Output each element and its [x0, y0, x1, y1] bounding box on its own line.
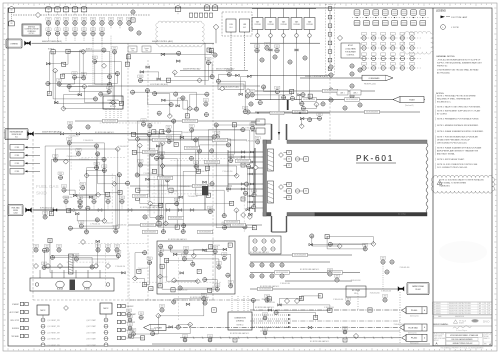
- svg-text:XX: XX: [47, 21, 49, 23]
- svg-text:000: 000: [184, 341, 187, 343]
- svg-text:NO NOTE LINE GAS NO.1: NO NOTE LINE GAS NO.1: [300, 268, 319, 271]
- svg-text:000: 000: [205, 115, 208, 117]
- svg-text:000: 000: [242, 130, 245, 132]
- svg-text:000: 000: [281, 266, 284, 268]
- svg-text:LEGEND: LEGEND: [436, 10, 446, 13]
- svg-text:000: 000: [276, 51, 279, 53]
- svg-text:Trim: Trim: [145, 50, 149, 52]
- svg-text:000: 000: [251, 277, 254, 279]
- svg-text:JB: JB: [329, 17, 331, 19]
- svg-text:2"-FG-604-150: 2"-FG-604-150: [90, 224, 100, 226]
- svg-text:XX: XX: [247, 165, 249, 167]
- svg-text:LSS: LSS: [243, 24, 247, 26]
- svg-text:00-XX-000-0000: 00-XX-000-0000: [186, 148, 198, 150]
- svg-text:XXX: XXX: [207, 58, 210, 60]
- svg-text:XX: XX: [87, 125, 89, 127]
- svg-text:00-XX-000-0000: 00-XX-000-0000: [259, 289, 271, 291]
- svg-text:00-XX-000-0000: 00-XX-000-0000: [184, 121, 196, 123]
- svg-text:NO NOTE LINE GAS NO.1: NO NOTE LINE GAS NO.1: [255, 306, 274, 309]
- svg-text:CONTROL: CONTROL: [109, 103, 117, 105]
- svg-text:000: 000: [244, 112, 247, 114]
- svg-text:00-XX-000-0000: 00-XX-000-0000: [303, 99, 315, 101]
- svg-text:JB: JB: [329, 25, 331, 27]
- svg-text:000: 000: [351, 87, 354, 89]
- svg-text:XX: XX: [291, 97, 293, 99]
- svg-text:XXX: XXX: [74, 19, 77, 21]
- svg-text:XX: XX: [138, 271, 140, 273]
- svg-text:000: 000: [159, 247, 162, 249]
- svg-text:PK-602: PK-602: [415, 289, 420, 291]
- svg-text:XX: XX: [276, 90, 278, 92]
- svg-text:XX: XX: [83, 21, 85, 23]
- svg-text:XX: XX: [172, 290, 174, 292]
- svg-text:XXX: XXX: [74, 29, 77, 31]
- svg-text:8"-FG-601-1501-N: 8"-FG-601-1501-N: [40, 208, 55, 210]
- svg-text:000: 000: [351, 75, 354, 77]
- svg-text:(Tom lead 2): (Tom lead 2): [410, 342, 419, 344]
- svg-text:000: 000: [261, 61, 264, 63]
- svg-text:NO NOTE LINE GAS NO.1: NO NOTE LINE GAS NO.1: [190, 296, 209, 299]
- svg-text:XX: XX: [261, 263, 263, 265]
- svg-text:2"-FG-607-150: 2"-FG-607-150: [79, 159, 89, 161]
- svg-text:XX: XX: [150, 288, 152, 290]
- svg-text:XX: XX: [108, 75, 110, 77]
- svg-text:40 NOTE AS LINE (AUX): 40 NOTE AS LINE (AUX): [150, 83, 168, 86]
- svg-text:XX: XX: [351, 84, 353, 86]
- svg-text:XX: XX: [129, 318, 131, 320]
- svg-text:2"-FG-600-150: 2"-FG-600-150: [245, 127, 255, 129]
- svg-text:XX: XX: [35, 248, 37, 250]
- svg-text:XXX: XXX: [190, 126, 193, 128]
- svg-text:(Tom lead 2): (Tom lead 2): [408, 332, 417, 334]
- svg-text:00/00/00: 00/00/00: [436, 311, 441, 313]
- svg-text:000: 000: [344, 333, 347, 335]
- svg-text:XXX: XXX: [276, 87, 279, 89]
- svg-text:COOLER: COOLER: [306, 24, 313, 26]
- svg-text:000: 000: [301, 104, 304, 106]
- svg-text:60604H CONTROL (AUX): 60604H CONTROL (AUX): [152, 40, 173, 43]
- svg-text:XX: XX: [351, 72, 353, 74]
- svg-text:000: 000: [155, 159, 158, 161]
- svg-text:XX: XX: [92, 32, 94, 34]
- svg-text:XX: XX: [264, 331, 266, 333]
- svg-text:HYDROGEN REFORMER - STEAM GEN: HYDROGEN REFORMER - STEAM GEN: [450, 334, 478, 337]
- svg-text:000: 000: [204, 280, 207, 282]
- svg-text:60-2: 60-2: [243, 27, 246, 29]
- svg-text:000: 000: [151, 334, 154, 336]
- svg-text:PLANT: PLANT: [409, 99, 414, 102]
- svg-text:XX: XX: [142, 123, 144, 125]
- svg-text:XX: XX: [129, 334, 131, 336]
- svg-text:XX: XX: [58, 248, 60, 250]
- svg-text:000: 000: [168, 142, 171, 144]
- svg-text:XX: XX: [10, 23, 12, 25]
- svg-text:WATER STEAM: WATER STEAM: [412, 285, 424, 288]
- svg-text:XX: XX: [74, 9, 76, 11]
- svg-text:XXX: XXX: [59, 173, 62, 175]
- svg-text:000: 000: [59, 178, 62, 180]
- svg-text:2"-FG-606-150: 2"-FG-606-150: [162, 130, 172, 132]
- svg-text:XX: XX: [329, 272, 331, 274]
- svg-text:XX: XX: [214, 53, 216, 55]
- svg-text:Oxygen: Oxygen: [144, 48, 149, 50]
- svg-text:Sr Lomo Wagner: Sr Lomo Wagner: [456, 329, 468, 332]
- svg-text:000: 000: [190, 159, 193, 161]
- svg-text:2"-FG-603-150: 2"-FG-603-150: [66, 210, 76, 212]
- svg-text:XX: XX: [177, 8, 179, 10]
- svg-text:000: 000: [47, 84, 50, 86]
- svg-text:000: 000: [142, 125, 145, 127]
- svg-text:2"-FG-606-150: 2"-FG-606-150: [138, 268, 148, 270]
- svg-text:XX: XX: [227, 274, 229, 276]
- svg-text:2"-FG-605-150: 2"-FG-605-150: [69, 135, 79, 137]
- svg-text:000: 000: [261, 277, 264, 279]
- svg-text:OTHERS: OTHERS: [10, 43, 18, 45]
- svg-text:00-XX-000-0000: 00-XX-000-0000: [144, 232, 156, 234]
- svg-text:NOTE 6: FLAME SCANNER MOUNTED: NOTE 6: FLAME SCANNER MOUNTED ON BURNER.: [437, 130, 484, 133]
- svg-text:B-31: B-31: [15, 137, 18, 139]
- svg-text:XX: XX: [256, 49, 258, 51]
- svg-text:XX: XX: [208, 50, 210, 52]
- svg-text:2"-FG-600-150: 2"-FG-600-150: [118, 146, 128, 148]
- svg-text:AND FAULT SIGNAL.: AND FAULT SIGNAL.: [437, 153, 456, 156]
- svg-text:000: 000: [302, 95, 305, 97]
- svg-text:XX: XX: [382, 260, 384, 262]
- svg-text:XX: XX: [211, 149, 213, 151]
- svg-text:XXX: XXX: [228, 70, 231, 72]
- svg-text:XX: XX: [250, 102, 252, 104]
- svg-text:000: 000: [261, 266, 264, 268]
- svg-text:2"-FG-603-150: 2"-FG-603-150: [115, 266, 125, 268]
- svg-text:XXX: XXX: [80, 222, 83, 224]
- svg-text:XXX: XXX: [119, 19, 122, 21]
- svg-text:(to verify): (to verify): [398, 213, 406, 216]
- svg-text:000: 000: [318, 119, 321, 121]
- svg-text:000: 000: [80, 227, 83, 229]
- svg-text:000: 000: [54, 161, 57, 163]
- svg-text:EXCEEDS 60 C.: EXCEEDS 60 C.: [437, 102, 452, 104]
- svg-text:000: 000: [223, 259, 226, 261]
- svg-text:XXX: XXX: [276, 46, 279, 48]
- svg-text:CD: CD: [484, 306, 486, 308]
- svg-text:000: 000: [251, 96, 254, 98]
- svg-text:L_DO_RESET_STR: L_DO_RESET_STR: [47, 320, 60, 322]
- svg-text:000: 000: [245, 185, 248, 187]
- svg-text:GAS: GAS: [295, 21, 298, 24]
- svg-text:000: 000: [266, 49, 269, 51]
- svg-text:000: 000: [132, 13, 135, 15]
- svg-text:XX: XX: [83, 32, 85, 34]
- svg-text:XX: XX: [271, 274, 273, 276]
- svg-text:000: 000: [130, 30, 133, 32]
- svg-text:XX: XX: [245, 183, 247, 185]
- svg-text:L 15 PSI: L 15 PSI: [451, 27, 459, 29]
- svg-text:2"-FG-608-150: 2"-FG-608-150: [188, 196, 198, 198]
- svg-text:00-XX-000-0000: 00-XX-000-0000: [226, 222, 238, 224]
- svg-text:XX: XX: [209, 338, 211, 340]
- svg-text:XX: XX: [206, 7, 208, 9]
- svg-text:000: 000: [359, 106, 362, 108]
- svg-text:XX: XX: [251, 263, 253, 265]
- svg-text:XX: XX: [101, 32, 103, 34]
- svg-text:NOTE 2: VALVE TO BE OPEN ONLY: NOTE 2: VALVE TO BE OPEN ONLY FOR REGEN.: [437, 106, 481, 109]
- svg-text:000: 000: [158, 114, 161, 116]
- svg-text:XX: XX: [107, 200, 109, 202]
- svg-text:FOR BURNER: FOR BURNER: [345, 51, 356, 53]
- svg-text:00-XX-000-0000: 00-XX-000-0000: [170, 218, 182, 220]
- svg-text:000: 000: [100, 95, 103, 97]
- svg-text:000: 000: [182, 226, 185, 228]
- svg-text:XX: XX: [190, 157, 192, 159]
- svg-text:XX: XX: [129, 326, 131, 328]
- svg-text:000: 000: [183, 260, 186, 262]
- svg-text:GAS: GAS: [308, 21, 311, 24]
- svg-text:XXX: XXX: [264, 314, 267, 316]
- svg-text:000: 000: [160, 218, 163, 220]
- svg-text:NOTE 3: INSTRUMENT SUPPLIED BY: NOTE 3: INSTRUMENT SUPPLIED BY ITT, PLAN…: [437, 110, 481, 113]
- svg-text:XX: XX: [65, 9, 67, 11]
- svg-text:XXX: XXX: [121, 197, 124, 199]
- svg-text:2"-FG-605-150: 2"-FG-605-150: [246, 140, 256, 142]
- svg-text:CD: CD: [484, 303, 486, 305]
- svg-text:XX: XX: [229, 245, 231, 247]
- svg-text:00-XX-000-0000: 00-XX-000-0000: [232, 225, 244, 227]
- svg-text:XX: XX: [391, 260, 393, 262]
- svg-text:XXX: XXX: [183, 255, 186, 257]
- svg-text:CD: CD: [484, 308, 486, 310]
- svg-text:XX: XX: [56, 32, 58, 34]
- svg-text:XXX: XXX: [336, 276, 339, 278]
- svg-text:DOC. 60280B-ITT-PID07-C001-003: DOC. 60280B-ITT-PID07-C001-003.: [437, 167, 468, 169]
- svg-text:XXX: XXX: [47, 19, 50, 21]
- svg-text:REPRODUCTION FORBIDDEN: REPRODUCTION FORBIDDEN: [454, 350, 471, 352]
- svg-text:000: 000: [391, 263, 394, 265]
- svg-text:L_MOT_START: L_MOT_START: [86, 344, 96, 347]
- svg-text:000: 000: [209, 341, 212, 343]
- svg-text:000: 000: [129, 337, 132, 339]
- svg-text:XXX: XXX: [107, 246, 110, 248]
- svg-text:AT 607: AT 607: [348, 44, 353, 47]
- svg-text:60608H CONDENSATE (AUX): 60608H CONDENSATE (AUX): [305, 75, 328, 78]
- svg-text:COND.: COND.: [15, 163, 20, 165]
- svg-text:XXX: XXX: [92, 29, 95, 31]
- svg-text:STANDBY: STANDBY: [12, 303, 19, 306]
- svg-text:000: 000: [244, 228, 247, 230]
- svg-text:BD STEAM: BD STEAM: [352, 289, 361, 292]
- svg-text:000: 000: [115, 232, 118, 234]
- svg-text:XX: XX: [160, 245, 162, 247]
- svg-text:XXX: XXX: [344, 328, 347, 330]
- svg-text:000: 000: [35, 251, 38, 253]
- svg-text:000: 000: [291, 99, 294, 101]
- svg-text:REQUIRED IF SHELL TEMPERATURE: REQUIRED IF SHELL TEMPERATURE: [437, 98, 471, 101]
- svg-text:XX: XX: [61, 76, 63, 78]
- svg-text:XX: XX: [74, 21, 76, 23]
- svg-text:00-XX-000-0000: 00-XX-000-0000: [199, 232, 211, 234]
- svg-text:000: 000: [97, 251, 100, 253]
- svg-text:000: 000: [174, 95, 177, 97]
- svg-text:CD: CD: [484, 311, 486, 313]
- svg-text:XX: XX: [121, 200, 123, 202]
- svg-text:XX: XX: [56, 9, 58, 11]
- svg-text:PK-602: PK-602: [411, 338, 417, 340]
- svg-text:XX: XX: [97, 248, 99, 250]
- svg-text:XX: XX: [322, 102, 324, 104]
- svg-text:XXX: XXX: [93, 57, 96, 59]
- svg-text:000: 000: [271, 277, 274, 279]
- svg-text:XX: XX: [330, 73, 332, 75]
- svg-text:000: 000: [126, 184, 129, 186]
- svg-text:(Tom lead 2): (Tom lead 2): [405, 105, 414, 107]
- svg-text:L_MOT_START: L_MOT_START: [86, 331, 96, 334]
- svg-text:XX: XX: [384, 298, 386, 300]
- svg-text:XX: XX: [288, 197, 290, 199]
- svg-text:XX: XX: [288, 165, 290, 167]
- svg-text:XX: XX: [65, 32, 67, 34]
- svg-text:XX: XX: [130, 27, 132, 29]
- svg-text:XX: XX: [96, 218, 98, 220]
- svg-text:XX: XX: [214, 7, 216, 9]
- svg-text:4: 4: [433, 303, 434, 305]
- svg-text:XXX: XXX: [68, 139, 71, 141]
- svg-text:000: 000: [205, 105, 208, 107]
- svg-text:XXX: XXX: [83, 19, 86, 21]
- svg-text:L_MOT_START: L_MOT_START: [86, 325, 96, 328]
- svg-text:XXX: XXX: [43, 263, 46, 265]
- svg-text:60-1: 60-1: [229, 27, 232, 29]
- svg-text:000: 000: [107, 251, 110, 253]
- svg-text:XXX: XXX: [195, 162, 198, 164]
- svg-text:60607H SPRING VALV: 60607H SPRING VALV: [183, 67, 201, 70]
- svg-text:000: 000: [195, 110, 198, 112]
- svg-text:XX: XX: [261, 58, 263, 60]
- svg-text:60280B-ITT-PID07-C001-002: 60280B-ITT-PID07-C001-002: [453, 343, 473, 345]
- svg-text:XX: XX: [136, 198, 138, 200]
- svg-text:000: 000: [144, 218, 147, 220]
- svg-text:XXX: XXX: [167, 127, 170, 129]
- svg-text:XXX: XXX: [58, 80, 61, 82]
- svg-text:XX: XX: [223, 257, 225, 259]
- svg-text:XXX: XXX: [79, 197, 82, 199]
- svg-text:000: 000: [217, 82, 220, 84]
- svg-text:XX: XX: [246, 94, 248, 96]
- svg-text:XX: XX: [211, 182, 213, 184]
- svg-text:XXX: XXX: [83, 29, 86, 31]
- svg-text:DVO: DVO: [483, 319, 490, 323]
- svg-text:2"-FG-608-150: 2"-FG-608-150: [177, 290, 187, 292]
- svg-text:XX: XX: [77, 152, 79, 154]
- svg-text:XX: XX: [289, 60, 291, 62]
- svg-text:COND.: COND.: [15, 147, 20, 149]
- svg-text:XX: XX: [10, 9, 12, 11]
- svg-text:XXX: XXX: [46, 246, 49, 248]
- svg-text:2"-FG-601-150: 2"-FG-601-150: [222, 171, 232, 173]
- svg-text:000: 000: [223, 216, 226, 218]
- svg-text:2"-FG-601-150: 2"-FG-601-150: [182, 132, 192, 134]
- svg-text:DWG 60280B-ITT-PID07-0001-001.: DWG 60280B-ITT-PID07-0001-001.: [437, 143, 468, 145]
- svg-text:TRAVELING.: TRAVELING.: [439, 185, 451, 188]
- svg-text:XX: XX: [167, 80, 169, 82]
- svg-text:XX: XX: [304, 56, 306, 58]
- svg-text:CD: CD: [484, 313, 486, 315]
- svg-text:000: 000: [103, 51, 106, 53]
- svg-text:3"-BS-601-300: 3"-BS-601-300: [324, 307, 334, 309]
- svg-text:000: 000: [246, 97, 249, 99]
- svg-text:XX: XX: [336, 278, 338, 280]
- svg-text:A: A: [435, 341, 437, 345]
- svg-text:2: 2: [433, 308, 434, 310]
- svg-text:000: 000: [139, 166, 142, 168]
- svg-text:GAS: GAS: [269, 21, 272, 24]
- svg-text:XX: XX: [128, 313, 130, 315]
- svg-text:AB: AB: [479, 302, 481, 305]
- svg-text:XXX: XXX: [175, 199, 178, 201]
- svg-text:XXX: XXX: [65, 29, 68, 31]
- svg-text:SUPPLY, THE SEQUENTIAL NUMBERS: SUPPLY, THE SEQUENTIAL NUMBERS HAVE UNIT: [437, 62, 483, 65]
- svg-text:XX: XX: [213, 310, 215, 312]
- svg-text:000: 000: [151, 155, 154, 157]
- svg-text:000: 000: [329, 275, 332, 277]
- svg-text:00-XX-000-0000: 00-XX-000-0000: [271, 113, 283, 115]
- svg-text:000: 000: [347, 304, 350, 306]
- svg-text:XX: XX: [60, 176, 62, 178]
- svg-text:TRIP AVAIL: TRIP AVAIL: [11, 335, 19, 338]
- svg-text:NOTE 10: NOTE 10: [110, 106, 116, 108]
- svg-text:XX: XX: [261, 274, 263, 276]
- svg-text:(Tom lead 2): (Tom lead 2): [410, 315, 419, 317]
- svg-text:XX: XX: [305, 191, 307, 193]
- svg-text:XX: XX: [138, 31, 140, 33]
- svg-text:FUEL GAS: FUEL GAS: [36, 184, 59, 189]
- svg-text:XXX: XXX: [58, 246, 61, 248]
- svg-text:XX: XX: [259, 101, 261, 103]
- svg-text:000: 000: [139, 81, 142, 83]
- svg-text:3"-BS-601-300: 3"-BS-601-300: [351, 280, 361, 282]
- svg-text:000: 000: [322, 105, 325, 107]
- svg-text:000: 000: [256, 51, 259, 53]
- svg-text:2 INSTRUMENT TAG TRV-060 SHALL: 2 INSTRUMENT TAG TRV-060 SHALL BE READ: [437, 69, 479, 72]
- svg-text:00-XX-000-0000: 00-XX-000-0000: [159, 178, 171, 180]
- svg-text:NOTE 11: SOLENOID VALVE TO INT: NOTE 11: SOLENOID VALVE TO INTER INSTALL…: [439, 179, 484, 182]
- svg-text:XX: XX: [116, 248, 118, 250]
- svg-text:000: 000: [289, 63, 292, 65]
- svg-text:ISSUED FOR CONSTRUCTION REV: ISSUED FOR CONSTRUCTION REV: [449, 303, 471, 305]
- svg-text:XX: XX: [271, 263, 273, 265]
- svg-text:XXX: XXX: [108, 87, 111, 89]
- svg-text:COOLER: COOLER: [254, 24, 261, 26]
- svg-text:XX: XX: [69, 125, 71, 127]
- svg-text:XXX: XXX: [93, 197, 96, 199]
- svg-text:XX: XX: [65, 200, 67, 202]
- svg-text:XX: XX: [276, 49, 278, 51]
- svg-text:NOTE 3: NOTE 3: [29, 33, 35, 35]
- svg-text:XXX: XXX: [168, 137, 171, 139]
- svg-text:XX: XX: [329, 243, 331, 245]
- svg-text:2"-FG-609-150: 2"-FG-609-150: [116, 224, 126, 226]
- svg-text:AUTO START: AUTO START: [10, 311, 19, 314]
- svg-text:U-302: U-302: [13, 213, 17, 215]
- svg-text:NOTE 10: NOTE 10: [237, 325, 244, 327]
- svg-text:3"-BS-601-300: 3"-BS-601-300: [370, 293, 380, 295]
- svg-text:000: 000: [58, 251, 61, 253]
- svg-text:000: 000: [69, 229, 72, 231]
- svg-text:00/00/00: 00/00/00: [436, 313, 441, 315]
- svg-text:000: 000: [274, 58, 277, 60]
- svg-text:XXX: XXX: [347, 299, 350, 301]
- svg-text:XXX: XXX: [382, 258, 385, 260]
- svg-text:3: 3: [433, 306, 434, 308]
- svg-text:000: 000: [256, 143, 259, 145]
